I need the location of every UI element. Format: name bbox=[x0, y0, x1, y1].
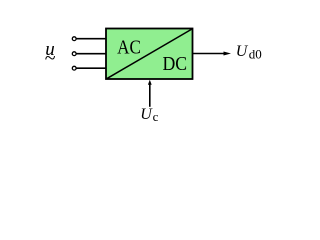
svg-text:d0: d0 bbox=[249, 47, 262, 62]
converter block U1 (AC/DC) bbox=[106, 29, 193, 80]
svg-text:c: c bbox=[153, 109, 159, 124]
svg-text:U: U bbox=[236, 43, 249, 60]
label Uc bbox=[140, 106, 158, 124]
label Ud0 bbox=[236, 43, 262, 62]
wire phase 1 bbox=[76, 38, 106, 40]
svg-text:DC: DC bbox=[163, 53, 188, 75]
svg-text:AC: AC bbox=[117, 37, 141, 59]
terminal circle phase 2 bbox=[72, 52, 76, 56]
control wire with arrow Uc bbox=[148, 80, 152, 107]
label DC bbox=[163, 53, 188, 75]
output wire with arrow Ud0 bbox=[193, 52, 231, 56]
terminal circle phase 1 bbox=[72, 37, 76, 41]
label AC bbox=[117, 37, 141, 59]
wire phase 3 bbox=[76, 67, 106, 69]
diagonal line inside converter block bbox=[107, 29, 193, 79]
label u (AC source voltage) bbox=[45, 39, 55, 60]
terminal circle phase 3 bbox=[72, 66, 76, 70]
wire phase 2 bbox=[76, 53, 106, 55]
tilde under u bbox=[45, 48, 56, 70]
svg-text:U: U bbox=[140, 106, 153, 123]
svg-text:~: ~ bbox=[45, 48, 56, 70]
